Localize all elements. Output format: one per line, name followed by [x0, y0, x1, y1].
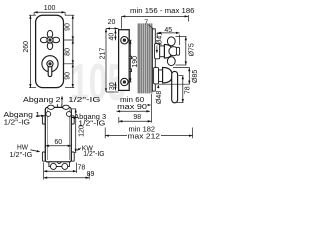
- svg-text:90: 90: [65, 72, 72, 80]
- svg-text:98: 98: [133, 114, 141, 121]
- svg-text:60: 60: [54, 139, 62, 146]
- svg-text:20: 20: [108, 19, 116, 26]
- svg-text:1/2"-IG: 1/2"-IG: [83, 151, 104, 158]
- svg-text:190: 190: [132, 56, 139, 68]
- svg-text:HW: HW: [17, 145, 28, 152]
- svg-text:min 156 - max 186: min 156 - max 186: [130, 8, 195, 15]
- svg-text:max 90: max 90: [117, 104, 147, 111]
- svg-text:78: 78: [78, 165, 86, 172]
- svg-text:40: 40: [108, 33, 115, 41]
- svg-text:1/2"-IG: 1/2"-IG: [78, 121, 105, 128]
- svg-text:Ø85: Ø85: [192, 70, 199, 83]
- svg-text:217: 217: [100, 48, 107, 60]
- svg-text:Ø75: Ø75: [189, 43, 196, 56]
- svg-text:260: 260: [23, 41, 30, 53]
- svg-text:1/2"-IG: 1/2"-IG: [9, 152, 32, 159]
- svg-text:Ø48: Ø48: [156, 91, 163, 104]
- svg-text:7: 7: [144, 19, 148, 26]
- svg-text:89: 89: [87, 171, 95, 178]
- svg-text:1/2"-IG: 1/2"-IG: [4, 119, 31, 126]
- svg-text:78: 78: [185, 86, 192, 94]
- svg-text:Ø41: Ø41: [156, 32, 163, 45]
- svg-text:45: 45: [164, 27, 172, 34]
- svg-text:90: 90: [65, 23, 72, 31]
- svg-text:1/2"-IG: 1/2"-IG: [68, 97, 101, 104]
- svg-text:max 212: max 212: [128, 133, 161, 140]
- svg-text:Abgang 1: Abgang 1: [4, 112, 41, 119]
- svg-text:80: 80: [65, 48, 72, 56]
- svg-text:30: 30: [109, 82, 116, 90]
- svg-text:Abgang 2: Abgang 2: [23, 97, 61, 104]
- svg-text:100: 100: [44, 5, 56, 12]
